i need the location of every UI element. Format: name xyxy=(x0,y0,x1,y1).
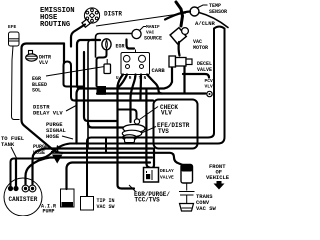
svg-text:VLV: VLV xyxy=(39,60,48,66)
svg-text:EFE: EFE xyxy=(8,24,17,30)
svg-text:EGR: EGR xyxy=(116,44,125,50)
svg-text:VLV: VLV xyxy=(205,84,214,90)
svg-text:TCC/TVS: TCC/TVS xyxy=(135,197,161,204)
svg-text:CARB: CARB xyxy=(152,67,166,74)
svg-text:T: T xyxy=(139,76,142,81)
svg-text:N: N xyxy=(144,76,147,81)
svg-text:CANISTER: CANISTER xyxy=(9,196,38,203)
svg-text:L: L xyxy=(134,76,137,81)
svg-text:U: U xyxy=(116,76,119,81)
svg-text:VEHICLE: VEHICLE xyxy=(206,174,230,181)
svg-text:PCV: PCV xyxy=(205,78,214,84)
svg-text:PUMP: PUMP xyxy=(43,209,55,215)
svg-text:VAC SW: VAC SW xyxy=(196,205,217,212)
svg-text:HOSE: HOSE xyxy=(33,150,45,156)
svg-text:R: R xyxy=(129,76,132,81)
svg-text:ROUTING: ROUTING xyxy=(40,21,70,29)
svg-text:DELAY VLV: DELAY VLV xyxy=(33,110,63,117)
svg-text:HOSE: HOSE xyxy=(46,133,60,140)
svg-text:VLV: VLV xyxy=(161,110,172,117)
svg-text:DISTR: DISTR xyxy=(104,11,122,18)
svg-text:VALVE: VALVE xyxy=(160,175,174,181)
svg-text:TANK: TANK xyxy=(1,141,15,148)
svg-text:VALVE: VALVE xyxy=(197,67,212,73)
svg-text:SOURCE: SOURCE xyxy=(144,36,162,42)
svg-text:SENSOR: SENSOR xyxy=(209,9,227,15)
svg-text:A/CLNR: A/CLNR xyxy=(195,20,216,27)
svg-text:MANIF: MANIF xyxy=(146,24,160,30)
svg-text:SOL: SOL xyxy=(32,88,41,94)
svg-text:MOTOR: MOTOR xyxy=(193,45,208,51)
svg-text:DELAY: DELAY xyxy=(160,168,174,174)
svg-text:TVS: TVS xyxy=(158,128,169,135)
svg-text:VAC SW: VAC SW xyxy=(97,204,115,210)
